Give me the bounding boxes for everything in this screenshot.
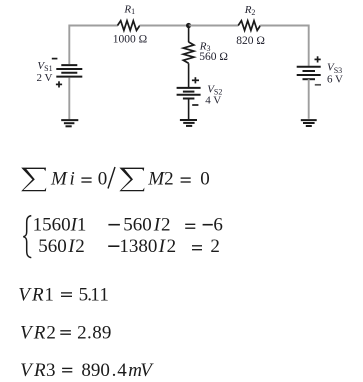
label VS2 value 4 V xyxy=(205,95,221,107)
wire node A down to R3 xyxy=(188,26,190,43)
svg-text:1: 1 xyxy=(99,285,109,306)
label R1 xyxy=(123,3,135,16)
svg-text:6 V: 6 V xyxy=(327,73,343,85)
equation VR2 = 2.89 xyxy=(20,322,111,343)
svg-text:4 V: 4 V xyxy=(205,95,221,107)
minus sign of VS1 xyxy=(52,58,58,60)
svg-text:R1: R1 xyxy=(123,3,135,16)
svg-text:V: V xyxy=(18,285,32,306)
svg-text:M: M xyxy=(50,168,68,189)
label VS3 value 6 V xyxy=(327,73,343,85)
svg-text:R: R xyxy=(33,322,46,343)
wire from VS1 up and right to R1 (top-left corner) xyxy=(69,26,118,65)
svg-text:.: . xyxy=(112,360,117,381)
svg-text:1560I1: 1560I1 xyxy=(33,215,87,236)
svg-text:6: 6 xyxy=(213,215,223,236)
svg-text:I: I xyxy=(158,236,167,257)
svg-text:R: R xyxy=(31,285,44,306)
svg-text:2: 2 xyxy=(77,322,87,343)
svg-text:V: V xyxy=(20,360,34,381)
label VS3 xyxy=(327,62,342,75)
label R1 value 1000 ohm xyxy=(113,33,147,45)
label R2 value 820 ohm xyxy=(236,35,265,47)
svg-text:R: R xyxy=(33,360,46,381)
equation row 2: 560I2 -1380I2 = 2 xyxy=(38,236,220,257)
svg-text:1: 1 xyxy=(44,285,54,306)
svg-text:890: 890 xyxy=(81,360,110,381)
svg-text:4: 4 xyxy=(117,360,127,381)
svg-text:V: V xyxy=(140,360,154,381)
svg-text:1380: 1380 xyxy=(119,236,157,257)
resistor R3 xyxy=(183,42,194,63)
svg-text:M2: M2 xyxy=(147,168,173,189)
svg-text:560 Ω: 560 Ω xyxy=(199,51,228,63)
wire VS2 to ground xyxy=(188,99,190,120)
svg-text:3: 3 xyxy=(46,360,56,381)
equation system: left curly brace xyxy=(23,216,31,258)
resistor R2 xyxy=(238,21,260,31)
wire VS1 to ground xyxy=(68,78,70,120)
equation row 1: 1560I1 -560I2 = -6 xyxy=(33,215,223,236)
svg-text:2: 2 xyxy=(46,322,56,343)
label R3 value 560 ohm xyxy=(199,51,228,63)
svg-text:8: 8 xyxy=(92,322,102,343)
plus sign of VS1 xyxy=(56,81,62,87)
wire VS3 to ground xyxy=(308,79,310,119)
wire node A to R2 xyxy=(189,25,239,27)
svg-text:2 V: 2 V xyxy=(37,72,53,84)
battery VS1 xyxy=(56,65,82,77)
ground (left) xyxy=(61,120,78,126)
svg-text:V: V xyxy=(20,322,34,343)
wire R3 to VS2 xyxy=(188,63,190,87)
battery VS2 xyxy=(177,88,201,99)
resistor R1 xyxy=(118,21,140,31)
label VS1 value 2 V xyxy=(37,72,53,84)
svg-text:R2: R2 xyxy=(244,4,256,17)
svg-text:.: . xyxy=(87,322,92,343)
label R3 xyxy=(199,40,211,53)
ground (right) xyxy=(301,120,317,126)
svg-text:560: 560 xyxy=(38,236,66,257)
svg-text:2: 2 xyxy=(75,236,85,257)
equation: sum Mi = 0 / sum M2 = 0 xyxy=(21,167,210,191)
minus sign of VS3 xyxy=(315,84,321,86)
battery VS3 xyxy=(297,67,321,79)
label R2 xyxy=(244,4,256,17)
plus sign of VS2 xyxy=(192,77,199,83)
svg-text:2: 2 xyxy=(167,236,177,257)
svg-text:820 Ω: 820 Ω xyxy=(236,35,265,47)
plus sign of VS3 xyxy=(315,56,321,62)
svg-text:2: 2 xyxy=(161,215,171,236)
svg-text:9: 9 xyxy=(102,322,112,343)
svg-text:1: 1 xyxy=(90,285,100,306)
svg-text:1000 Ω: 1000 Ω xyxy=(113,33,147,45)
label VS2 xyxy=(207,83,222,96)
equation VR1 = 5.11 xyxy=(18,285,109,306)
node A junction dot xyxy=(186,23,191,28)
svg-text:560: 560 xyxy=(123,215,152,236)
wire R2 right and down to VS3 (top-right corner) xyxy=(260,26,309,66)
svg-text:0: 0 xyxy=(98,168,108,189)
svg-text:0: 0 xyxy=(200,168,210,189)
svg-text:i: i xyxy=(70,168,75,189)
equation VR3 = 890.4 mV xyxy=(20,360,154,381)
svg-text:2: 2 xyxy=(210,236,220,257)
wire R1 to node A xyxy=(140,25,189,27)
label VS1 xyxy=(37,60,52,73)
minus sign of VS2 xyxy=(192,104,198,106)
ground (middle) xyxy=(180,120,197,126)
